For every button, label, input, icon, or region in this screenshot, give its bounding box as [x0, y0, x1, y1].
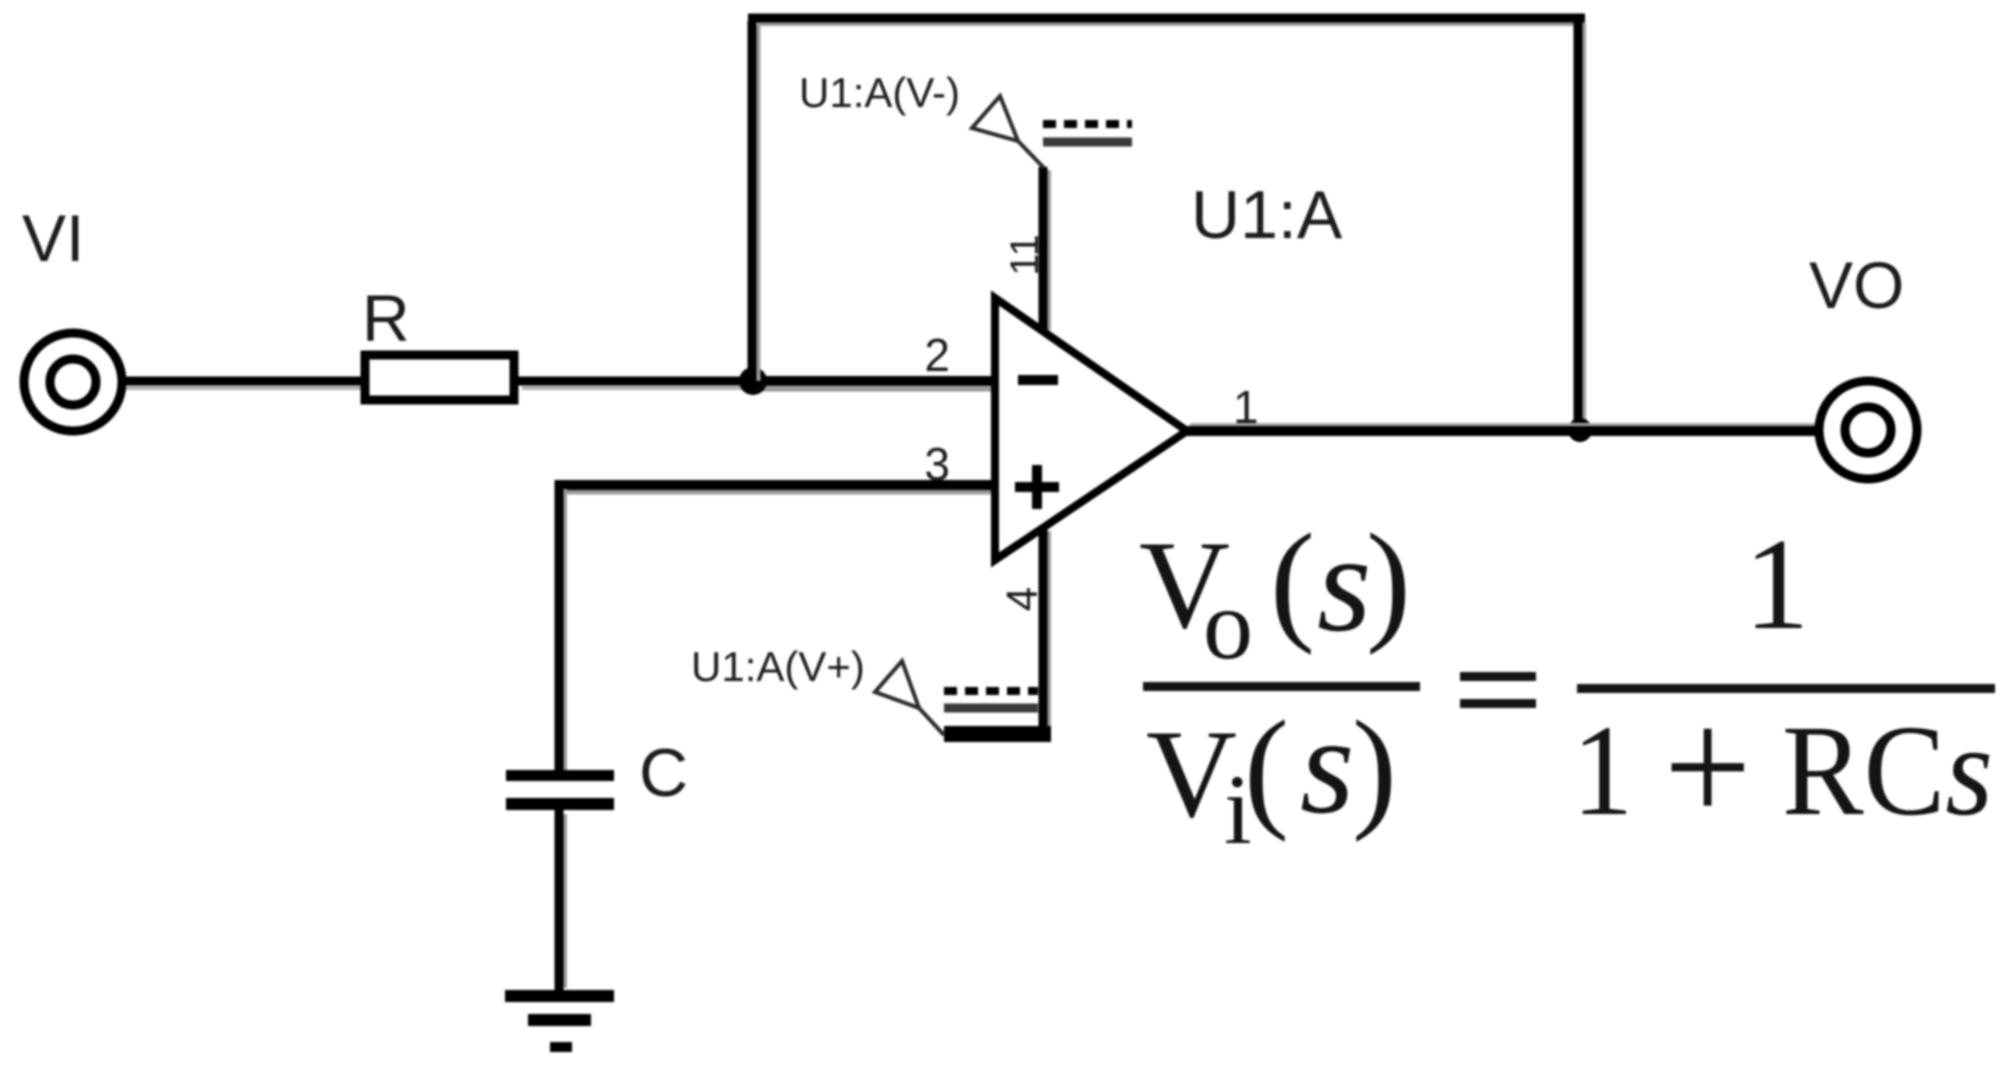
power symbol V+ bar — [944, 726, 1051, 742]
op-amp plus input symbol — [1015, 465, 1059, 509]
power flag V+ triangle — [875, 661, 944, 735]
wire capacitor to ground — [559, 810, 565, 992]
terminal VO — [1819, 381, 1917, 479]
power symbol V- dashed line — [1043, 120, 1132, 128]
svg-text:1 + RCs: 1 + RCs — [1572, 675, 1993, 858]
svg-text:(: ( — [1244, 694, 1289, 843]
svg-text:2: 2 — [924, 329, 950, 381]
node B junction — [1568, 418, 1592, 442]
svg-text:o: o — [1203, 569, 1253, 680]
svg-text:U1:A(V-): U1:A(V-) — [799, 69, 960, 116]
svg-text:s: s — [1300, 688, 1354, 843]
op-amp minus input symbol — [1018, 375, 1058, 385]
power symbol V- solid line — [1043, 138, 1132, 147]
formula numerator Vo(s) — [1139, 506, 1411, 680]
wire R to node A — [514, 381, 753, 388]
capacitor C bottom plate — [506, 798, 614, 810]
svg-text:(: ( — [1270, 507, 1315, 656]
svg-text:VI: VI — [22, 201, 84, 275]
power flag V- triangle — [972, 96, 1044, 168]
svg-text:): ) — [1352, 694, 1397, 843]
svg-text:s: s — [1317, 506, 1371, 661]
svg-text:11: 11 — [1003, 234, 1047, 276]
resistor R — [365, 355, 514, 400]
svg-text:4: 4 — [998, 587, 1047, 611]
svg-text:R: R — [362, 281, 410, 355]
svg-text:): ) — [1366, 507, 1411, 656]
pin 4 wire — [1043, 528, 1049, 734]
wire node B to VO terminal — [1580, 425, 1819, 431]
svg-text:U1:A: U1:A — [1191, 177, 1343, 253]
formula fraction bar left — [1143, 682, 1420, 691]
terminal VI — [24, 333, 122, 431]
svg-text:3: 3 — [924, 438, 950, 490]
wire VI to R — [122, 381, 365, 388]
wire pin 3 horizontal — [555, 485, 995, 492]
op-amp U1:A triangle — [995, 298, 1187, 560]
svg-text:1: 1 — [1744, 512, 1810, 657]
feedback wire left vertical — [752, 21, 758, 381]
wire pin 3 vertical to capacitor — [559, 480, 565, 770]
formula equals sign — [1460, 672, 1536, 708]
feedback wire right vertical — [1578, 14, 1584, 431]
power symbol V+ dashed line — [944, 687, 1038, 695]
feedback wire top horizontal — [748, 18, 1585, 24]
formula fraction bar right — [1577, 684, 1995, 693]
power symbol V+ solid line — [944, 704, 1038, 713]
svg-text:VO: VO — [1809, 248, 1904, 322]
node A junction — [739, 367, 767, 395]
wire node A to pin 2 — [753, 381, 995, 389]
ground — [505, 990, 614, 1052]
output wire pin 1 to node B — [1184, 425, 1580, 431]
formula denominator Vi(s) — [1146, 688, 1397, 865]
svg-text:U1:A(V+): U1:A(V+) — [691, 643, 865, 690]
capacitor C top plate — [506, 770, 614, 781]
svg-text:C: C — [639, 735, 688, 811]
pin 11 wire — [1043, 167, 1049, 334]
